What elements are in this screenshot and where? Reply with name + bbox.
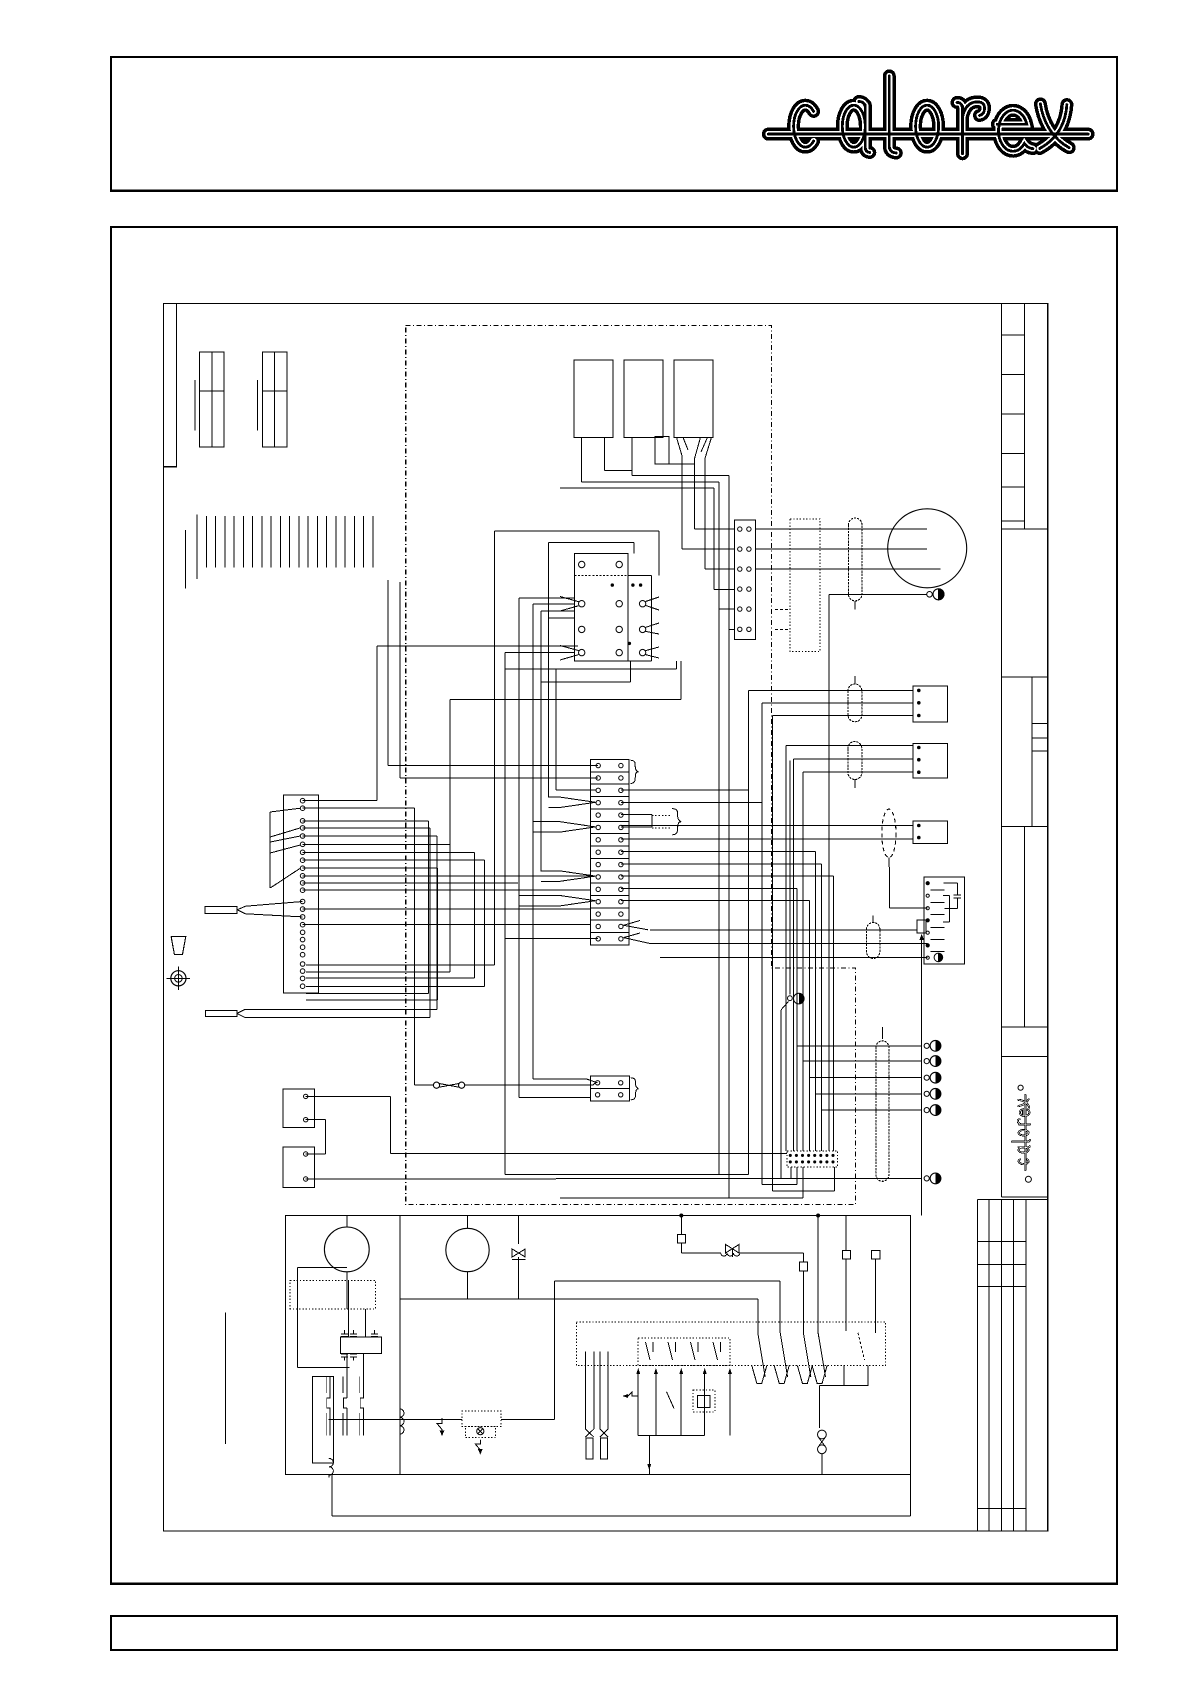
left wiring bundle [303, 801, 591, 1085]
gauge circle 2 [446, 1216, 489, 1299]
title block screw circle bottom [1025, 1176, 1031, 1182]
compressor motor circle [888, 509, 967, 588]
inner schematic frame [164, 304, 1048, 1532]
relay wiring loops [377, 531, 681, 1175]
switch with sensor head [781, 760, 804, 1178]
sensor bank wires [797, 1046, 922, 1110]
long dotted cable capsule C5 [876, 1041, 889, 1182]
main terminal strip (15 way) [591, 759, 630, 945]
switch blade small [667, 1392, 675, 1409]
big contact blades [752, 1323, 868, 1385]
main drawing outer box [111, 227, 1117, 1584]
bowtie symbol [433, 1082, 593, 1088]
cable capsule C2 [848, 684, 862, 722]
low box B [283, 1147, 315, 1187]
timer relay box [917, 877, 964, 1215]
dash-dot control panel boundary [406, 326, 856, 1205]
lone scale line bottom left [225, 1312, 227, 1444]
spade terminal (lower) [205, 1009, 437, 1017]
wire valve loop to contact bank [501, 1281, 780, 1419]
contact bank lower wiring [636, 1368, 732, 1474]
wire to bowtie lamp [414, 1084, 433, 1086]
zigzag flow arrow 1 [437, 1419, 442, 1434]
capacitor pack [341, 1330, 382, 1361]
brace right of strip rows 1-2 [631, 760, 639, 783]
coil on divider [400, 1409, 404, 1434]
relay contact bank (dotted) [576, 1322, 885, 1366]
contactor/transformer rectangle 2 [624, 360, 663, 437]
spade terminal (upper) [205, 902, 303, 917]
auxiliary relay block 1 (top-left) [195, 352, 224, 447]
frame left tab [164, 304, 177, 467]
pilot relay box 2 [913, 744, 948, 779]
contactor stub wires and collector bus [581, 437, 729, 482]
small square S2 [799, 1253, 807, 1323]
strip left spade arrows [519, 797, 596, 906]
solenoid valve on feed 2 [512, 1216, 525, 1299]
dotted junction box [775, 519, 820, 652]
contactor/transformer rectangle 1 [574, 360, 613, 437]
sensor symbol 2 [924, 1056, 941, 1067]
coil on left element [329, 1458, 333, 1475]
sensor symbol 1 [924, 1040, 941, 1051]
auxiliary relay block 2 (top-left) [258, 352, 287, 447]
title block screw circle top [1018, 1085, 1023, 1090]
cable capsule C3 [848, 742, 862, 780]
pressure gauge circle 1 [324, 1216, 369, 1281]
dotted multipole connector box [787, 1151, 837, 1167]
dashed sensor ellipse E1 [882, 809, 896, 858]
interlock loop rows 5-6 with dotted leads and brace [621, 809, 681, 835]
thermal cutout symbol [622, 1392, 638, 1398]
strip to relay boxes wiring (right) [505, 790, 928, 1151]
fuse cartridge pair [585, 1351, 608, 1459]
wire E1 tick to timer pin3 [888, 867, 890, 908]
klixon overload symbol [927, 589, 944, 600]
comb of terminal tick lines (top left) [186, 515, 373, 589]
strip bottom arrows right rows 14-15 [624, 921, 651, 944]
2-way terminal block [591, 1076, 639, 1101]
sensor symbol 6 [924, 1173, 941, 1184]
solenoid small square S1 [677, 1216, 720, 1253]
dotted box under gauge1 [290, 1280, 375, 1308]
phase wires down to connector [560, 455, 734, 1198]
footer box [111, 1616, 1117, 1650]
reversing valve symbol [721, 1245, 804, 1258]
small square S3 [842, 1216, 850, 1332]
24-way edge connector [283, 795, 318, 993]
wire klixon to control [829, 593, 927, 595]
coil winding zigzag left of connector [270, 808, 300, 888]
sensor symbol 5 [924, 1105, 941, 1116]
feeds to 2-way block [519, 1079, 598, 1098]
long loop wires lower middle [505, 1167, 835, 1198]
dotted aux box [693, 1390, 715, 1412]
cable sheath capsule (compressor feed) [849, 518, 862, 601]
compressor supply wires [755, 529, 940, 569]
fan motor bowtie [818, 1386, 827, 1475]
revision table bottom right [977, 1199, 1047, 1531]
small square S4 [872, 1250, 881, 1332]
6-pole connector block [734, 520, 755, 640]
cable capsule C4 [867, 923, 880, 959]
calorex logo (header) [768, 76, 1088, 154]
contactor/transformer rectangle 3 [674, 360, 713, 437]
wire junction top bus dots [680, 1214, 820, 1323]
small contacts in inner dotted box [646, 1342, 721, 1360]
pilot relay box 1 [913, 686, 948, 722]
pilot relay box 3 [913, 821, 948, 843]
bottom sub-circuit box [285, 1216, 910, 1516]
wire gauge2/valve to divider [400, 1298, 758, 1300]
funnel symbol [171, 937, 186, 955]
title block column [1001, 304, 1047, 1197]
low box A [283, 1089, 315, 1128]
low pressure switch dotted [400, 1411, 501, 1454]
wires gauge1 to capacitor pack [298, 1268, 366, 1368]
strip row3 left wire [555, 669, 557, 790]
header frame box [111, 57, 1117, 191]
earth reference target symbol [167, 967, 191, 991]
sensor symbol 4 [924, 1088, 941, 1099]
sensor symbol 3 [924, 1072, 941, 1083]
main relay / contactor block (centre) [560, 554, 659, 661]
low box wiring [306, 1096, 921, 1179]
strip feed wires rows 1-2 [388, 580, 598, 778]
feeds to pilot relay boxes [749, 690, 913, 1191]
triple fuse elements [313, 1354, 401, 1464]
vertical calorex logo in title block [1012, 1095, 1030, 1170]
